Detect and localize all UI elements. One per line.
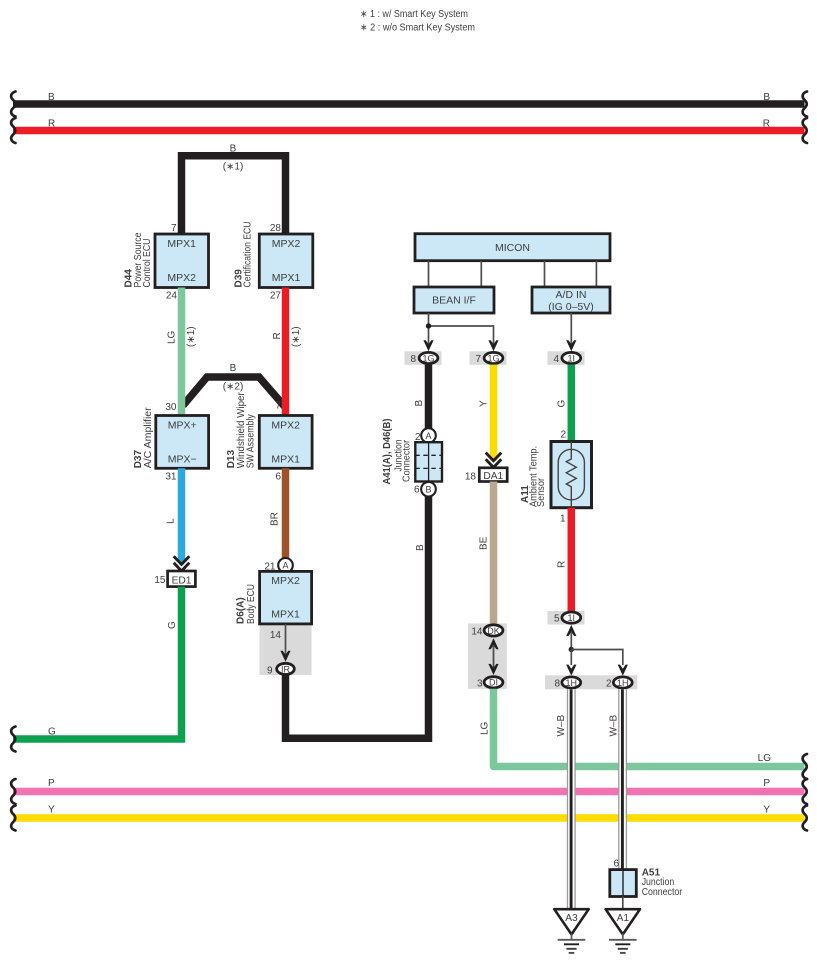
connector DI (pin 3) [484,677,503,688]
svg-text:MPX1: MPX1 [271,453,300,465]
svg-text:9: 9 [267,666,273,677]
amplifier D37 [133,402,209,483]
svg-text:MPX2: MPX2 [271,575,300,587]
wire B IR to junction connector B [286,496,429,738]
svg-text:(∗1): (∗1) [223,162,244,173]
svg-text:6: 6 [414,485,420,496]
svg-text:L: L [166,518,177,524]
svg-text:BEAN I/F: BEAN I/F [432,295,476,307]
svg-text:R: R [272,332,283,339]
svg-text:MPX1: MPX1 [167,238,196,250]
svg-text:G: G [48,727,56,738]
svg-text:MPX+: MPX+ [168,419,197,431]
ECU D39 [234,222,313,302]
junction connector A41(A) D46(B) node A (pin 2) [421,428,436,443]
wire B 1G to junction connector [425,365,433,429]
junction connector A41(A), D46(B) [382,419,442,485]
svg-text:A3: A3 [565,913,578,924]
svg-text:15: 15 [154,575,166,586]
svg-text:30: 30 [165,402,177,413]
svg-text:SW Assembly: SW Assembly [246,414,257,468]
svg-text:Certification ECU: Certification ECU [243,222,254,288]
switch D13 [226,392,312,483]
svg-text:W–B: W–B [556,715,567,737]
svg-text:B: B [48,92,55,103]
svg-text:B: B [230,363,237,374]
svg-text:(∗1): (∗1) [291,326,302,347]
connector 1G pin7 [470,351,507,365]
svg-text:P: P [48,778,55,789]
body ECU D6(A) [236,571,312,624]
wire branch to 1G pin7 [429,326,494,346]
wire R D39 pin27 to D13 pin7 [282,288,290,416]
svg-text:B: B [763,92,770,103]
wire B (*1) link D44 pin7 to D39 pin28 [182,156,286,234]
wire BR D13 pin6 to node A [282,468,290,558]
svg-text:LG: LG [758,753,772,764]
svg-text:A41(A), D46(B): A41(A), D46(B) [382,419,393,485]
wire LG D44 pin24 to D37 pin30 [178,288,186,416]
svg-text:(IG 0–5V): (IG 0–5V) [548,301,594,313]
svg-text:5: 5 [554,614,560,625]
wire MICON to A/D IN [544,261,546,287]
junction connector A51 (pin 6) [610,859,683,899]
svg-text:24: 24 [166,291,178,302]
connector 1H pin8 [562,677,581,688]
svg-text:LG: LG [480,721,491,735]
svg-text:Y: Y [763,805,770,816]
svg-text:(∗1): (∗1) [186,326,197,347]
node ED1 [154,571,195,587]
svg-text:∗ 2 : w/o Smart Key System: ∗ 2 : w/o Smart Key System [360,23,475,34]
svg-text:MPX−: MPX− [168,453,197,465]
svg-text:DK: DK [487,626,500,636]
junction connector node B (pin 6) [421,482,436,497]
svg-text:DI: DI [489,678,498,688]
svg-text:2: 2 [606,679,612,690]
node DA1 (pin 18) [465,468,507,483]
wire BEAN I/F to 1G pin8 [428,313,430,346]
svg-text:A/D IN: A/D IN [556,289,587,301]
svg-text:MPX1: MPX1 [271,608,300,620]
wire Y 1G pin7 to DA1 [490,365,498,461]
arrow into ED1 [174,556,190,571]
connector 1G pin8 [405,351,442,365]
bus P (pink) [13,788,805,796]
svg-text:14: 14 [270,630,282,641]
wire BE DA1 to DK [490,482,498,625]
svg-text:1G: 1G [422,353,434,363]
body ECU D6(A) gray zone [260,624,312,675]
connector DK DI gray zone [468,623,507,688]
svg-text:14: 14 [471,627,483,638]
connector row 1H gray zone [545,675,637,689]
svg-text:6: 6 [613,859,619,870]
arrow into 1G pin7 [488,340,498,351]
arrow into 1G pin8 [423,340,433,351]
svg-text:1G: 1G [487,353,499,363]
arrow into DA1 [486,453,502,468]
svg-text:18: 18 [465,472,477,483]
svg-text:Control ECU: Control ECU [142,239,153,288]
svg-text:A/C Amplifier: A/C Amplifier [143,407,154,469]
svg-text:1I: 1I [568,613,576,623]
wire MICON to A/D IN [595,261,597,287]
svg-text:B: B [230,144,237,155]
ground A3 [554,909,588,953]
connector 1I pin5 [548,611,585,625]
svg-text:B: B [415,544,426,551]
svg-text:27: 27 [270,291,282,302]
svg-text:31: 31 [165,472,177,483]
node A circle (pin 21) [278,558,293,573]
wire B (*2) link D37 pin30 to D13 pin7 [183,377,286,408]
svg-text:BE: BE [478,536,489,550]
svg-text:2: 2 [560,430,566,441]
svg-text:28: 28 [270,223,282,234]
ground A1 [606,909,640,953]
svg-text:G: G [167,621,178,629]
svg-text:1: 1 [560,514,566,525]
svg-text:∗ 1 : w/ Smart Key System: ∗ 1 : w/ Smart Key System [360,9,468,20]
connector 1I pin4 [548,351,585,365]
wire branch to 1H pin2 [571,650,623,666]
bus Y (yellow) [13,814,805,822]
svg-text:4: 4 [553,354,559,365]
svg-text:Y: Y [479,400,490,407]
svg-text:ED1: ED1 [172,576,192,587]
svg-text:Body ECU: Body ECU [246,584,257,624]
svg-text:G: G [557,400,568,408]
wire G 1I pin4 to A11 [568,365,576,442]
svg-text:7: 7 [171,223,177,234]
svg-text:7: 7 [475,354,481,365]
svg-text:MPX2: MPX2 [272,238,301,250]
arrow out of 1I pin5 [566,625,576,636]
ECU D44 [124,223,209,302]
svg-text:6: 6 [275,472,281,483]
bus B (black) [13,100,805,108]
svg-text:B: B [414,400,425,407]
svg-text:IR: IR [281,664,291,674]
svg-text:MICON: MICON [495,242,530,254]
bus R (red) [13,127,805,135]
svg-text:A: A [282,561,288,571]
connector 1H pin2 [613,677,632,688]
svg-text:R: R [763,119,770,130]
arrow into 1I pin4 [566,340,576,351]
svg-text:Connector: Connector [402,439,413,482]
wire A/D IN to 1I pin4 [570,313,572,346]
wire branch to 1H pin8 [570,650,572,666]
junction dot [426,323,431,328]
svg-text:BR: BR [270,512,281,526]
svg-text:A1: A1 [617,913,630,924]
wire MICON to BEAN I/F [428,261,430,287]
svg-text:8: 8 [554,679,560,690]
arrow pair DK to DI [488,638,498,649]
svg-text:DA1: DA1 [483,471,503,482]
svg-text:LG: LG [166,330,177,344]
wire MICON to BEAN I/F [480,261,482,287]
branch dot [569,647,574,652]
svg-text:P: P [763,778,770,789]
wire D6(A) pin14 to IR [285,624,287,657]
arrow into 1H pin8 [566,665,576,676]
svg-text:8: 8 [410,354,416,365]
wire G ED1 to ground bus [13,587,182,739]
svg-text:MPX1: MPX1 [272,272,301,284]
sensor A11 Ambient Temp. [520,430,592,525]
node IR oval (pin 9) [277,663,295,674]
wire L D37 pin31 to ED1 [178,468,186,562]
svg-text:3: 3 [477,679,483,690]
wire W-B 1H pin8 to ground A3 [556,689,575,909]
svg-text:(∗2): (∗2) [223,382,244,393]
svg-text:B: B [425,485,431,495]
MICON box [415,234,610,261]
wire LG DI to right bus [494,689,805,767]
connector DK (pin 14) [484,625,503,636]
svg-text:Connector: Connector [642,887,683,898]
arrow into 1H pin2 [618,665,628,676]
wire 1I to branch dot [570,632,572,650]
wire R A11 to 1I pin5 [568,508,576,611]
svg-text:D6(A): D6(A) [236,597,247,624]
svg-text:1I: 1I [568,353,576,363]
wire A51 to ground A1 [622,897,624,910]
svg-text:MPX2: MPX2 [271,419,300,431]
svg-text:7: 7 [275,401,281,412]
svg-text:A: A [425,431,431,441]
A/D IN box [532,287,610,313]
svg-text:Sensor: Sensor [536,477,547,507]
wire W-B 1H pin2 to A51 [608,689,626,869]
svg-text:R: R [557,561,568,568]
bus G left end [11,727,15,752]
svg-text:MPX2: MPX2 [167,272,196,284]
svg-text:1H: 1H [617,678,629,688]
BEAN I/F box [414,287,494,313]
svg-text:Y: Y [48,805,55,816]
svg-text:W–B: W–B [608,715,619,737]
svg-text:1H: 1H [566,678,578,688]
svg-text:R: R [48,119,55,130]
